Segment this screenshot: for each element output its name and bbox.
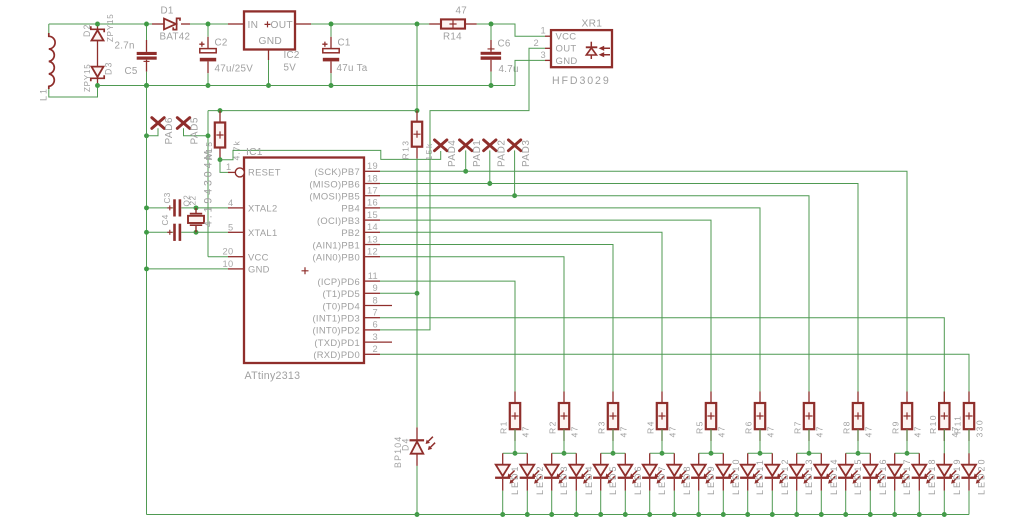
LED LED16 (869, 453, 871, 464)
junction PAD6 (144, 133, 149, 138)
svg-text:9: 9 (373, 283, 378, 293)
wire R1 to split (514, 429, 516, 453)
IC2 pin GND stub (268, 50, 270, 61)
wire PB row pin to column x=760 (380, 208, 760, 403)
svg-text:ATtiny2313: ATtiny2313 (245, 370, 301, 382)
capacitor C6 (490, 24, 492, 40)
svg-text:4.7u: 4.7u (499, 64, 519, 75)
svg-text:PAD4: PAD4 (447, 140, 458, 167)
svg-text:47: 47 (619, 425, 629, 437)
junction PAD1 (463, 169, 468, 174)
svg-text:(T1)PD5: (T1)PD5 (322, 288, 360, 299)
IC IC1 box (244, 158, 364, 364)
svg-text:1: 1 (226, 162, 231, 172)
svg-text:IC1: IC1 (246, 147, 263, 158)
junction PAD5 tap (206, 133, 211, 138)
junction PAD3 (512, 193, 517, 198)
svg-text:(INT1)PD3: (INT1)PD3 (313, 313, 361, 324)
svg-text:LED11: LED11 (755, 458, 765, 495)
svg-text:PAD1: PAD1 (472, 140, 483, 167)
inductor L1 (48, 24, 50, 33)
wire 5V row (208, 110, 417, 112)
wire PD5 row (380, 292, 417, 294)
wire LED pair split (601, 452, 626, 454)
svg-text:47: 47 (766, 425, 776, 437)
junction LED13 rail (794, 512, 799, 517)
IC1 pin 19 stub (364, 170, 380, 172)
svg-text:3: 3 (541, 50, 546, 60)
IC1 pin 16 stub (364, 207, 380, 209)
wire R7 to split (808, 429, 810, 453)
junction LED1 rail (500, 512, 505, 517)
junction LED15 rail (843, 512, 848, 517)
svg-text:14: 14 (367, 222, 378, 232)
svg-text:PAD5: PAD5 (190, 117, 201, 144)
junction LED10 rail (721, 512, 726, 517)
svg-text:HFD3029: HFD3029 (552, 75, 611, 87)
svg-text:47: 47 (521, 425, 531, 437)
svg-text:47u Ta: 47u Ta (337, 63, 368, 74)
svg-text:4: 4 (228, 198, 233, 208)
svg-text:20: 20 (223, 247, 234, 257)
svg-text:C1: C1 (338, 38, 351, 49)
junction R6 split (758, 451, 763, 456)
svg-text:5V: 5V (284, 63, 297, 74)
junction C5 bottom (144, 83, 149, 88)
wire R4 to split (661, 429, 663, 453)
IC1 pin 14 stub (364, 231, 380, 233)
svg-text:(SCK)PB7: (SCK)PB7 (314, 166, 360, 177)
LED LED8 (673, 453, 675, 464)
wire R8 to split (857, 429, 859, 453)
pad PAD4 (435, 140, 447, 151)
wire bottom gnd rail (147, 514, 970, 516)
IC1 pin 2 stub (364, 353, 380, 355)
wire PB row pin to column x=809 (380, 196, 809, 403)
svg-text:IN: IN (248, 20, 259, 31)
junction C1 bottom (329, 83, 334, 88)
svg-text:LED8: LED8 (682, 464, 692, 495)
junction C2 top (206, 22, 211, 27)
svg-text:R4: R4 (646, 420, 656, 434)
wire LED pair split (699, 452, 724, 454)
resistor R2 (563, 392, 565, 404)
wire R2 to split (563, 429, 565, 453)
IC1 pin 4 stub (228, 207, 244, 209)
LED LED10 (722, 453, 724, 464)
wire PD3 row to R10 (380, 318, 944, 403)
wire VCC column (207, 111, 209, 257)
IC2 origin cross (265, 21, 271, 27)
wire R10 to LED19 (943, 429, 945, 465)
LED LED15 (845, 453, 847, 464)
XR1 pin 3 stub (545, 59, 551, 61)
junction 5V drop (415, 22, 420, 27)
wire LED pair split (748, 452, 773, 454)
svg-text:(RXD)PD0: (RXD)PD0 (313, 349, 360, 360)
junction gnd pin (144, 266, 149, 271)
svg-text:16: 16 (367, 198, 378, 208)
svg-text:LED18: LED18 (927, 457, 937, 495)
junction R1 split (513, 451, 518, 456)
svg-text:15k: 15k (424, 142, 434, 160)
resistor R15 4.7k (219, 111, 221, 123)
svg-text:47: 47 (668, 425, 678, 437)
svg-text:R9: R9 (891, 420, 901, 434)
diode D2 zener (91, 26, 104, 32)
svg-text:PB4: PB4 (341, 203, 360, 214)
wire LED pair split (503, 452, 528, 454)
IC2 pin IN stub (228, 23, 244, 25)
wire PB row pin to column x=613 (380, 245, 613, 404)
junction LED5 rail (598, 512, 603, 517)
crystal Q2 (195, 208, 197, 213)
svg-text:R6: R6 (744, 420, 754, 434)
LED LED18 (918, 453, 920, 464)
junction R15 top (218, 108, 223, 113)
wire XTAL2 row (147, 207, 174, 209)
pad PAD5 (177, 118, 189, 129)
junction LED19 rail (942, 512, 947, 517)
svg-text:R7: R7 (793, 420, 803, 434)
LED LED2 (526, 453, 528, 464)
LED LED14 (820, 453, 822, 464)
wire PB row pin to column x=662 (380, 232, 662, 403)
svg-text:LED9: LED9 (706, 464, 716, 495)
svg-text:330: 330 (975, 419, 985, 438)
wire R3 to split (612, 429, 614, 453)
D1 anode pin (152, 23, 164, 25)
diode D3 zener (92, 67, 104, 77)
svg-text:LED17: LED17 (902, 457, 912, 495)
LED LED13 (796, 453, 798, 464)
svg-text:3: 3 (373, 332, 378, 342)
wire PB row pin to column x=907 (380, 171, 907, 403)
svg-text:47u/25V: 47u/25V (215, 64, 254, 75)
svg-text:PB2: PB2 (341, 227, 360, 238)
junction D4 bottom (415, 512, 420, 517)
capacitor C4 (173, 224, 176, 241)
IC1 pin 20 stub (228, 256, 244, 258)
svg-text:R11: R11 (953, 415, 963, 434)
capacitor C2 (207, 24, 209, 37)
XR1 receive arrows (603, 48, 610, 54)
svg-text:C2: C2 (215, 38, 228, 49)
svg-text:LED16: LED16 (878, 457, 888, 495)
IC1 pin 13 stub (364, 244, 380, 246)
junction R4 split (660, 451, 665, 456)
resistor R5 (710, 392, 712, 404)
wire reset to pin (220, 160, 228, 173)
junction LED11 rail (745, 512, 750, 517)
svg-text:GND: GND (556, 56, 578, 67)
R14 pins (429, 23, 441, 25)
svg-text:D3: D3 (104, 61, 114, 75)
junction LED4 rail (574, 512, 579, 517)
wire R5 to split (710, 429, 712, 453)
resistor R13 15k (412, 122, 422, 147)
wire LED pair split (846, 452, 871, 454)
svg-text:LED10: LED10 (731, 457, 741, 495)
R13 pins (416, 111, 418, 122)
svg-text:1: 1 (541, 26, 546, 36)
svg-text:2: 2 (534, 38, 539, 48)
svg-text:LED1: LED1 (510, 464, 520, 495)
resistor R7 (808, 392, 810, 404)
svg-text:XR1: XR1 (582, 19, 603, 30)
junction LED12 rail (770, 512, 775, 517)
wire reset to PAD4 (220, 150, 441, 159)
wire GND rail (98, 85, 516, 87)
IC1 pin 8 stub (364, 305, 392, 307)
svg-text:6: 6 (373, 320, 378, 330)
svg-text:ZPY15: ZPY15 (83, 64, 92, 92)
connector XR1 box (551, 30, 612, 67)
pad PAD6 (152, 118, 164, 129)
junction reset node (218, 157, 223, 162)
svg-text:(ICP)PD6: (ICP)PD6 (317, 276, 360, 287)
pad PAD3 (508, 140, 520, 151)
svg-text:C4: C4 (161, 214, 170, 225)
wire LED pair split (650, 452, 675, 454)
pad PAD2 (484, 140, 496, 151)
svg-text:LED15: LED15 (853, 457, 863, 495)
capacitor C3 (173, 199, 176, 216)
junction R3 split (611, 451, 616, 456)
XR1 pin 1 stub (545, 35, 551, 37)
svg-text:11: 11 (368, 271, 378, 281)
svg-text:18: 18 (367, 173, 378, 183)
capacitor C1 (330, 24, 332, 37)
junction LED6 rail (623, 512, 628, 517)
wire PB row pin to column x=515 (380, 281, 515, 403)
svg-text:(INT0)PD2: (INT0)PD2 (313, 325, 361, 336)
junction C1 top (329, 22, 334, 27)
svg-text:47: 47 (570, 425, 580, 437)
svg-text:7: 7 (373, 308, 378, 318)
svg-text:D2: D2 (82, 23, 92, 37)
junction C6 top (489, 22, 494, 27)
wire R13 bottom (416, 159, 418, 294)
LED LED5 (600, 453, 602, 464)
svg-text:10: 10 (223, 259, 234, 269)
wire GND pin row (147, 268, 229, 270)
regulator IC2 5V box (244, 11, 295, 49)
svg-text:LED2: LED2 (535, 464, 545, 495)
junction XTAL2 gnd (144, 205, 149, 210)
LED LED12 (771, 453, 773, 464)
junction LED16 rail (868, 512, 873, 517)
LED LED17 (894, 453, 896, 464)
svg-text:47: 47 (864, 425, 874, 437)
junction PAD2 (487, 181, 492, 186)
IC1 pin 17 stub (364, 195, 380, 197)
junction R9 split (905, 451, 910, 456)
junction XTAL1 gnd (144, 230, 149, 235)
svg-text:47: 47 (815, 425, 825, 437)
LED LED4 (575, 453, 577, 464)
wire IC2 GND down (268, 60, 270, 86)
wire gnd left column (146, 86, 148, 515)
wire LED pair split (797, 452, 822, 454)
IC1 pin 12 stub (364, 256, 380, 258)
pad PAD1 (460, 140, 472, 151)
svg-text:47: 47 (456, 6, 468, 17)
junction C5 top (144, 22, 149, 27)
svg-text:LED19: LED19 (952, 457, 962, 495)
svg-text:BAT42: BAT42 (160, 32, 191, 43)
svg-text:R8: R8 (842, 420, 852, 434)
wire photodiode column (416, 293, 418, 427)
svg-text:(AIN1)PB1: (AIN1)PB1 (312, 239, 360, 250)
resistor R1 (514, 392, 516, 404)
junction LED9 rail (696, 512, 701, 517)
svg-text:GND: GND (259, 36, 283, 47)
svg-text:(OCI)PB3: (OCI)PB3 (317, 215, 360, 226)
svg-text:(AIN0)PB0: (AIN0)PB0 (312, 252, 360, 263)
svg-text:PAD3: PAD3 (521, 140, 532, 167)
svg-text:(MOSI)PB5: (MOSI)PB5 (309, 191, 360, 202)
svg-text:12: 12 (367, 247, 378, 257)
svg-text:R5: R5 (695, 420, 705, 434)
svg-text:(MISO)PB6: (MISO)PB6 (309, 178, 360, 189)
svg-text:8: 8 (373, 295, 378, 305)
svg-text:GND: GND (248, 264, 270, 275)
capacitor C5 (146, 24, 148, 40)
svg-text:C3: C3 (163, 192, 172, 203)
junction PD5 node (415, 291, 420, 296)
svg-text:ZPY15: ZPY15 (106, 14, 115, 42)
svg-text:LED4: LED4 (584, 464, 594, 495)
svg-text:R3: R3 (597, 420, 607, 434)
wire R11 to LED20 (968, 429, 970, 465)
wire L1 bottom (49, 86, 98, 98)
resistor R14 (441, 19, 465, 28)
junction crystal top (194, 205, 199, 210)
svg-text:LED6: LED6 (633, 464, 643, 495)
photodiode D4 BP104 (410, 439, 425, 441)
wire LED pair split (552, 452, 577, 454)
svg-text:OUT: OUT (271, 20, 293, 31)
resistor R4 (661, 392, 663, 404)
LED LED1 (502, 453, 504, 464)
svg-text:C6: C6 (498, 39, 511, 50)
svg-text:PAD2: PAD2 (496, 140, 507, 167)
diode D1 BAT42 (164, 19, 176, 30)
wire R14 to corner (477, 24, 545, 36)
svg-text:LED14: LED14 (829, 457, 839, 495)
svg-text:XTAL2: XTAL2 (248, 203, 277, 214)
svg-text:R10: R10 (928, 414, 938, 434)
junction IC2 GND (266, 83, 271, 88)
svg-text:L1: L1 (39, 87, 49, 101)
svg-text:4.194304M: 4.194304M (203, 148, 215, 227)
wire XR1 OUT (380, 48, 545, 330)
LED LED9 (698, 453, 700, 464)
svg-text:5: 5 (228, 222, 233, 232)
svg-text:R2: R2 (548, 420, 558, 434)
wire XR1 GND (515, 60, 545, 85)
wire D1 to IC2 IN (181, 23, 190, 25)
IC1 pin 5 stub (228, 231, 244, 233)
wire 5V drop to row (416, 24, 418, 111)
LED LED3 (551, 453, 553, 464)
wire rail D2 to C5 (98, 23, 165, 25)
svg-text:R1: R1 (499, 420, 509, 434)
svg-text:(T0)PD4: (T0)PD4 (322, 300, 360, 311)
svg-text:19: 19 (367, 161, 378, 171)
IC1 origin cross (302, 267, 309, 274)
wire PB row pin to column x=858 (380, 184, 858, 404)
IC1 reset pin circle (228, 171, 235, 173)
wire R6 to split (759, 429, 761, 453)
svg-text:R14: R14 (443, 32, 462, 43)
resistor R10 (943, 392, 945, 404)
svg-text:22: 22 (189, 196, 198, 206)
IC1 pin 9 stub (364, 292, 380, 294)
junction R2 split (562, 451, 567, 456)
resistor R11 (968, 392, 970, 404)
svg-text:2.7n: 2.7n (115, 41, 135, 52)
junction R7 split (807, 451, 812, 456)
LED LED6 (624, 453, 626, 464)
svg-text:15: 15 (367, 210, 378, 220)
wire XTAL1 row (147, 231, 174, 233)
IC1 pin 3 stub (364, 341, 392, 343)
junction LED17 rail (892, 512, 897, 517)
junction 5V row right (415, 108, 420, 113)
wire PD0 row to R11 (380, 354, 969, 403)
wire R9 to split (906, 429, 908, 453)
svg-text:LED5: LED5 (608, 464, 618, 495)
junction top zener (95, 22, 100, 27)
svg-text:47: 47 (717, 425, 727, 437)
IC2 pin OUT stub (295, 23, 311, 25)
junction R5 split (709, 451, 714, 456)
wire VCC pin feed (208, 256, 228, 258)
junction bottom zener (95, 83, 100, 88)
svg-text:PAD6: PAD6 (164, 117, 175, 144)
resistor R8 (857, 392, 859, 404)
svg-text:LED12: LED12 (780, 457, 790, 495)
IC1 pin 15 stub (364, 219, 380, 221)
LED LED19 (943, 453, 945, 464)
IC1 pin 7 stub (364, 317, 380, 319)
svg-text:17: 17 (367, 186, 378, 196)
svg-text:VCC: VCC (248, 251, 269, 262)
resistor R6 (759, 392, 761, 404)
resistor R3 (612, 392, 614, 404)
svg-text:(TXD)PD1: (TXD)PD1 (314, 337, 360, 348)
junction LED14 rail (819, 512, 824, 517)
svg-text:LED20: LED20 (977, 457, 987, 495)
svg-text:IC2: IC2 (284, 50, 300, 61)
svg-text:XTAL1: XTAL1 (248, 227, 277, 238)
svg-text:13: 13 (367, 234, 378, 244)
junction LED3 rail (549, 512, 554, 517)
junction crystal bottom (194, 230, 199, 235)
svg-text:D1: D1 (161, 6, 174, 17)
wire LED pair split (895, 452, 920, 454)
svg-text:D4: D4 (401, 437, 411, 451)
LED LED7 (649, 453, 651, 464)
svg-text:C5: C5 (125, 66, 138, 77)
svg-text:VCC: VCC (556, 32, 577, 43)
junction LED8 rail (672, 512, 677, 517)
wire PB row pin to column x=564 (380, 257, 564, 403)
IC1 pin 11 stub (364, 280, 380, 282)
junction LED7 rail (647, 512, 652, 517)
